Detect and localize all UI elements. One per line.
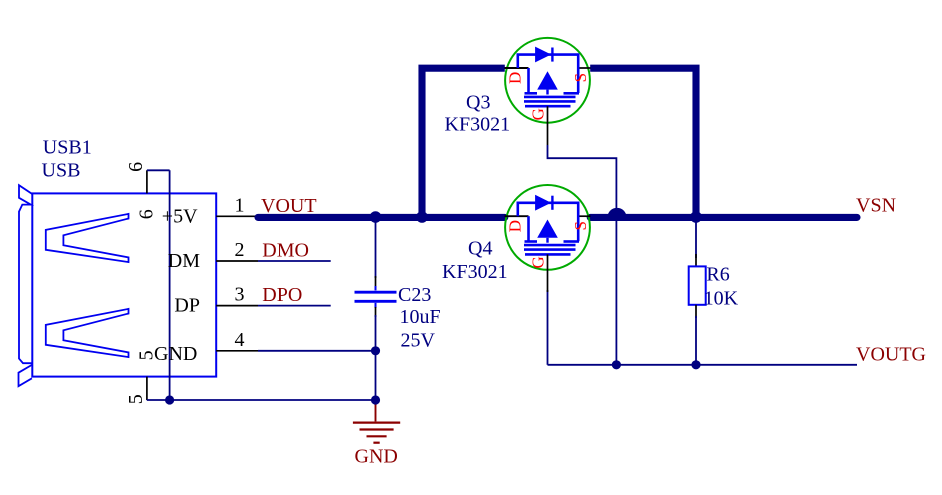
svg-text:DM: DM <box>168 250 200 272</box>
transistor Q4 body outline (drain corner, top rail, source leg) <box>518 203 578 241</box>
wire thick bus Q4 source to VSN <box>590 214 857 221</box>
capacitor C23 <box>375 286 377 290</box>
junction VOUTG row / Q3 gate wire <box>612 360 621 369</box>
wire R6 bottom to VOUTG row <box>695 305 697 318</box>
junction shield pin5 / vertical <box>165 395 174 404</box>
transistor Q4 channel bar 2 <box>524 248 576 251</box>
svg-text:USB: USB <box>42 160 81 182</box>
wire pin4 row to bottom shield row <box>375 351 377 400</box>
svg-text:DP: DP <box>174 295 200 317</box>
transistor Q3 drain contact leg <box>527 68 530 93</box>
transistor Q4 bulk arrow <box>537 220 558 238</box>
svg-text:C23: C23 <box>398 284 431 306</box>
transistor Q4 channel bar 1 <box>524 244 576 247</box>
pin 4 line <box>216 350 258 352</box>
junction bus / left riser <box>416 211 428 223</box>
svg-text:DMO: DMO <box>262 240 309 262</box>
wire VOUTG row <box>548 364 858 366</box>
junction pin4 row / C23 column <box>371 346 380 355</box>
junction VOUTG row / R6 column <box>691 360 700 369</box>
svg-text:Q4: Q4 <box>468 238 492 260</box>
transistor Q4 drain contact leg <box>527 216 530 241</box>
transistor Q3 gate pin stub <box>547 106 549 145</box>
svg-text:VOUTG: VOUTG <box>856 344 926 366</box>
svg-text:25V: 25V <box>401 330 436 352</box>
transistor Q3 body diode <box>535 47 551 63</box>
svg-text:D: D <box>506 72 525 84</box>
transistor Q3 bulk arrow <box>537 71 558 89</box>
svg-text:+5V: +5V <box>162 206 198 228</box>
svg-text:6: 6 <box>136 209 158 219</box>
svg-text:Q3: Q3 <box>466 92 490 114</box>
USB connector contact chevron upper <box>46 214 129 262</box>
transistor Q3 source contact foot <box>564 92 580 95</box>
wire C23 bottom to pin4 row <box>375 307 377 317</box>
svg-text:2: 2 <box>235 239 245 261</box>
junction bus / C23 column <box>370 211 382 223</box>
pin 1 line <box>216 215 258 217</box>
svg-text:4: 4 <box>235 329 245 351</box>
resistor R6 <box>689 266 706 304</box>
svg-text:S: S <box>571 221 590 230</box>
ground symbol GND <box>353 400 400 443</box>
transistor Q3 channel bar 1 <box>524 96 576 99</box>
wire shield vertical pin6 to pin5 row <box>169 170 171 400</box>
svg-text:KF3021: KF3021 <box>442 261 508 283</box>
svg-text:S: S <box>571 73 590 82</box>
wire bus junction down to R6 <box>695 217 697 258</box>
svg-text:GND: GND <box>355 446 398 468</box>
svg-text:GND: GND <box>154 343 197 365</box>
svg-text:5: 5 <box>125 394 147 404</box>
wire thick top right and right riser <box>590 68 696 221</box>
svg-text:1: 1 <box>235 194 245 216</box>
svg-text:VSN: VSN <box>856 195 896 217</box>
wire Q3 gate down-right-down to VOUTG row <box>548 145 617 365</box>
wire Q4 gate down to VOUTG row <box>547 290 549 365</box>
USB connector USB1 body box <box>32 193 216 376</box>
svg-text:KF3021: KF3021 <box>445 113 511 135</box>
transistor Q4 gate pin stub <box>547 254 549 292</box>
wire thick loop up through Q3 (left riser and top left) <box>422 68 505 221</box>
svg-text:D: D <box>506 220 525 232</box>
transistor Q3 channel bar 2 <box>524 100 576 103</box>
pin 3 line <box>216 305 258 307</box>
USB connector USB1 shell bottom tab <box>19 365 32 386</box>
junction bottom shield row / GND column <box>371 395 380 404</box>
pin 2 line <box>216 260 258 262</box>
transistor Q3 source pin stub <box>578 67 590 69</box>
transistor Q4 body diode <box>535 195 551 211</box>
transistor Q3 body outline (drain corner, top rail, source leg) <box>518 55 578 93</box>
svg-text:3: 3 <box>235 283 245 305</box>
transistor Q4 source contact foot <box>564 240 580 243</box>
wire pin6 bend to vertical <box>147 169 170 171</box>
transistor Q4 source pin stub <box>578 215 590 217</box>
pin 6 stub (top shield pin) <box>146 170 148 193</box>
wire DPO net <box>258 305 331 307</box>
pin 5 stub (bottom shield pin) <box>146 377 148 400</box>
wire bottom shield row to GND column <box>147 399 376 401</box>
transistor Q4 channel bar 3 <box>525 253 571 256</box>
wire thick VOUT bus (pin1 to Q4 drain) <box>258 214 505 221</box>
USB connector contact chevron lower <box>46 309 129 357</box>
svg-text:10uF: 10uF <box>400 306 441 328</box>
transistor Q4 drain pin stub <box>505 215 529 217</box>
junction bus / right riser and R6 <box>690 211 702 223</box>
svg-text:G: G <box>528 256 547 268</box>
wire pin4 to GND column <box>258 350 376 352</box>
svg-text:6: 6 <box>125 162 147 172</box>
transistor Q3 channel bar 3 <box>525 105 571 108</box>
transistor Q4 drain contact foot <box>525 240 538 243</box>
wire bus to C23 top <box>375 217 377 278</box>
svg-text:VOUT: VOUT <box>261 195 317 217</box>
wire hop bump over Q3 gate wire <box>607 208 626 218</box>
wire DMO net <box>258 260 331 262</box>
svg-text:G: G <box>528 108 547 120</box>
transistor Q4 green circle <box>505 185 590 270</box>
transistor Q3 green circle <box>505 38 590 123</box>
svg-text:DPO: DPO <box>262 284 302 306</box>
svg-text:USB1: USB1 <box>43 137 92 159</box>
transistor Q3 drain contact foot <box>525 92 538 95</box>
svg-text:10K: 10K <box>704 287 739 309</box>
svg-text:R6: R6 <box>706 263 729 285</box>
transistor Q3 drain pin stub <box>505 67 529 69</box>
USB connector USB1 shell bracket <box>19 185 32 363</box>
